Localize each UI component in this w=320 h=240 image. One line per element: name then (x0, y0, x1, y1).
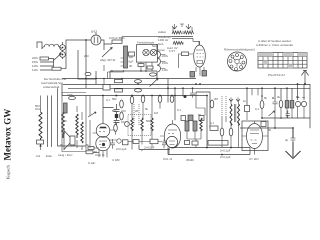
switch S4 mains (150, 79, 159, 87)
resistor R37 (181, 116, 186, 121)
svg-text:220v: 220v (162, 54, 169, 58)
core IF1 (172, 37, 193, 39)
capacitor C15 (291, 128, 296, 150)
bus heater (62, 78, 196, 80)
node V2 grid (174, 95, 176, 97)
bus right mid (262, 84, 310, 128)
node ant terminal (40, 145, 42, 147)
resistor R26 (290, 101, 294, 109)
wire psu box corner (96, 71, 110, 84)
resistor R29 (150, 139, 158, 144)
node J26 (261, 87, 263, 89)
wire ant down (40, 96, 42, 151)
resistor R23 (260, 101, 264, 109)
svg-text:Metavox GW: Metavox GW (3, 109, 13, 161)
node dots rails (102, 95, 104, 97)
wire psu left column (85, 40, 87, 88)
svg-text:Innen: Innen (158, 48, 165, 52)
resistor R32 band (69, 96, 76, 99)
resistor R35 (192, 141, 198, 145)
svg-text:0,1: 0,1 (255, 107, 259, 111)
node J36 (171, 95, 173, 97)
svg-text:110v: 110v (32, 68, 38, 72)
coil L13 (76, 114, 78, 138)
svg-text:50k: 50k (112, 109, 117, 113)
box band unit (62, 93, 86, 152)
svg-text:0,1: 0,1 (210, 121, 214, 125)
wire V2 pins (160, 120, 175, 155)
node J1 (62, 47, 64, 49)
svg-text:µ: µ (141, 148, 143, 152)
resistor R28 (133, 140, 139, 144)
capacitor C17 (160, 96, 166, 148)
trimmer arrow T4 (236, 98, 240, 102)
capacitor C5 (115, 80, 123, 83)
svg-text:1k: 1k (243, 99, 247, 103)
bus main1 (63, 84, 310, 86)
switch S3 (102, 48, 112, 58)
wire cath (93, 148, 99, 152)
node J7 (137, 83, 139, 85)
tube V3 output (194, 45, 206, 67)
trimmer arrow T3 (229, 98, 233, 102)
table rows (258, 56, 307, 64)
node J24 (206, 95, 208, 97)
lamp LP1 (60, 45, 66, 51)
node J10 (95, 78, 97, 80)
resistor R17 (185, 121, 189, 131)
node J15 (131, 95, 133, 97)
wire V2 top column (168, 79, 183, 121)
resistor R9 (150, 73, 157, 76)
svg-text:W: W (60, 143, 63, 147)
capacitor C20 (286, 111, 291, 119)
svg-text:2×0,1µF: 2×0,1µF (116, 147, 127, 151)
node J25 (246, 87, 248, 89)
node r3 (280, 117, 282, 119)
svg-text:UY 11N: UY 11N (249, 157, 259, 161)
svg-text:2M: 2M (214, 97, 219, 101)
resistor R33 hatched (64, 103, 68, 113)
coil L9 (151, 118, 153, 131)
trimmer arrow T2 (186, 24, 191, 29)
speaker SP1 coil b (150, 49, 156, 55)
choke L2 tapped (157, 44, 161, 79)
coil L6 antenna coil (62, 112, 65, 138)
node J16 (142, 95, 144, 97)
bus bottom1 (168, 148, 250, 155)
tick marks top right (297, 97, 306, 99)
svg-text:A-Röhren u. Urdox verwendet: A-Röhren u. Urdox verwendet (256, 43, 293, 47)
node J22 (192, 87, 194, 89)
tube V5 (247, 124, 263, 149)
node J9 (304, 83, 306, 85)
resistor R4 (147, 66, 153, 69)
varcap CV4 (225, 96, 227, 116)
wire tap bus (40, 59, 54, 71)
node det blob (184, 95, 187, 98)
node J27 (274, 87, 276, 89)
switch S5 avc arrow (269, 111, 275, 116)
wire V5 pins (242, 121, 268, 155)
capacitor C12 (273, 100, 278, 106)
svg-text:Geh.: Geh. (158, 42, 164, 46)
trimmer arrow T1 (172, 24, 177, 29)
svg-text:5k: 5k (264, 96, 268, 100)
tube V5 rectifier box (242, 121, 268, 151)
node r1 (272, 97, 274, 99)
capacitor C8 (114, 116, 120, 127)
wire right columns mid (247, 106, 304, 128)
wire to rectifier (61, 40, 91, 69)
resistor R36 (114, 124, 118, 131)
ground arrow (286, 128, 301, 159)
svg-text:50k: 50k (146, 119, 151, 123)
svg-text:470k: 470k (67, 93, 74, 97)
speaker SP1 coil a (143, 49, 149, 55)
wire det corner (196, 96, 205, 116)
coil L12 IF2 secondary (238, 104, 240, 126)
svg-text:80: 80 (296, 95, 300, 99)
resistor R38 (188, 115, 193, 121)
resistor R13 (120, 112, 124, 120)
wire left frame (58, 84, 67, 146)
speaker SP1 frame (137, 45, 158, 63)
svg-text:2k: 2k (277, 95, 281, 99)
coil L7 (131, 118, 133, 131)
svg-text:4µ: 4µ (285, 138, 289, 142)
capacitor C9 (170, 96, 174, 103)
resistor R5 (190, 72, 195, 78)
coil L4 IF secondary (184, 31, 194, 34)
wire mid column (103, 96, 114, 124)
wire drops (252, 88, 258, 95)
svg-text:45420: 45420 (186, 158, 194, 162)
wire IF2 (231, 102, 239, 129)
capacitor block C2 electrolytic (124, 46, 128, 68)
resistor R18 (193, 121, 197, 131)
varcap CV2 (138, 104, 140, 126)
node J23 (195, 83, 197, 85)
capacitor C3 (129, 52, 135, 56)
wire mid column2 (187, 129, 201, 148)
capacitor C7 (114, 104, 120, 115)
coil L8 (141, 118, 143, 131)
svg-text:110v: 110v (162, 68, 168, 72)
capacitor C18 (103, 85, 110, 91)
resistor R31 (86, 151, 93, 154)
wire V1 anode (110, 121, 116, 134)
svg-text:2×0,1µF: 2×0,1µF (220, 149, 231, 153)
node r2 (261, 95, 263, 97)
node J12 (156, 78, 158, 80)
wire V1 pins (93, 133, 114, 157)
svg-text:Ant: Ant (36, 154, 40, 158)
resistor R22 (229, 128, 233, 136)
node J30 (261, 117, 263, 119)
capacitor C16 (110, 139, 115, 149)
svg-text:0,1: 0,1 (177, 108, 181, 112)
varcap CV1 (133, 104, 135, 126)
tube V1 converter (96, 124, 110, 138)
resistor R20 (210, 126, 218, 131)
resistor R24 (279, 100, 283, 108)
wire detector row (114, 140, 163, 142)
resistor R8 (135, 89, 142, 92)
svg-text:50: 50 (268, 128, 272, 132)
wire IF connections (173, 27, 199, 45)
bus main2 (68, 87, 310, 89)
node J21 (182, 87, 184, 89)
node J3 (140, 70, 142, 72)
svg-text:Außen: Außen (158, 30, 167, 34)
wire tube V3 pins (196, 67, 204, 76)
bus B+ top (110, 70, 157, 72)
switch S2 (88, 112, 96, 117)
svg-text:Erde: Erde (46, 154, 52, 158)
bus detector return (170, 147, 250, 149)
resistor R6 (202, 71, 207, 77)
resistor R11 (123, 140, 129, 145)
resistor R40 (37, 140, 44, 144)
svg-text:Ph••237•F•A7: Ph••237•F•A7 (268, 73, 286, 77)
coil L14 (81, 122, 83, 143)
dashed shield box T2 (128, 115, 151, 136)
svg-text:250: 250 (84, 54, 89, 58)
svg-text:2×0,1µF: 2×0,1µF (220, 155, 231, 159)
node J31 (274, 127, 276, 129)
wire corner (193, 92, 211, 128)
resistor R7 (135, 80, 142, 83)
node bus dots (111, 70, 113, 72)
wire lower rail (62, 95, 207, 97)
svg-text:20: 20 (135, 109, 139, 113)
node J13 (85, 78, 87, 80)
capacitor C1 (112, 40, 122, 43)
resistor R25 (285, 101, 289, 109)
wire right columns top (247, 84, 304, 105)
node J28 (286, 87, 288, 89)
svg-text:4µF: 4µF (129, 55, 134, 59)
node J18 (151, 95, 153, 97)
svg-text:50: 50 (198, 113, 202, 117)
svg-text:0,1µF: 0,1µF (88, 161, 95, 165)
svg-text:2×0,5µF: 2×0,5µF (144, 146, 155, 150)
node J19 (167, 87, 169, 89)
wire IF2 bottom (222, 116, 239, 148)
tube V2 (164, 124, 180, 148)
node J35 (206, 147, 208, 149)
resistor R30 (88, 147, 94, 150)
coil L3 IF primary (172, 31, 182, 34)
resistor R39 (199, 116, 204, 121)
wire mains top (37, 42, 42, 49)
coil L1 primary winding (42, 44, 61, 49)
svg-text:30: 30 (129, 64, 133, 68)
wire column x207 (206, 96, 208, 148)
table shading (258, 53, 307, 69)
node J5 (103, 78, 105, 80)
table columns (263, 53, 303, 69)
svg-text:6µF: 6µF (129, 60, 134, 64)
node J20 (174, 87, 176, 89)
node J17 (159, 95, 161, 97)
antenna ANT (301, 71, 308, 86)
wire top rail (122, 36, 172, 38)
svg-text:5k: 5k (145, 107, 149, 111)
table voltages frame (258, 53, 307, 69)
wire speaker leads (141, 62, 152, 71)
socket U1 view (228, 52, 247, 71)
capacitor C21 (261, 122, 266, 127)
wire dipole a (47, 96, 49, 148)
resistor R14 (130, 96, 134, 103)
coil L11 IF2 primary (230, 104, 232, 126)
node psu (85, 39, 87, 41)
wire choke taps (161, 55, 166, 69)
svg-text:Kapsch: Kapsch (6, 165, 11, 179)
svg-text:0,1: 0,1 (106, 98, 110, 102)
resistor R2 (52, 67, 61, 70)
capacitor C13 (295, 101, 300, 106)
svg-text:Ausf. 4V6 ST: Ausf. 4V6 ST (167, 46, 178, 53)
wire lamp link (60, 42, 62, 59)
node J34 (230, 147, 232, 149)
wire C4 (179, 54, 194, 68)
node J11 (199, 83, 201, 85)
resistor R27 (85, 72, 91, 75)
svg-text:Abgl. 407 W: Abgl. 407 W (100, 58, 116, 62)
diode D1 (117, 139, 121, 143)
svg-text:50k: 50k (112, 97, 117, 101)
varcap CV3 (221, 96, 223, 116)
coil L10 (200, 118, 202, 131)
node J2 (62, 54, 64, 56)
node J33 (221, 154, 223, 156)
capacitor C6 (115, 89, 123, 92)
svg-text:1M: 1M (154, 111, 159, 115)
resistor R3 (138, 64, 144, 67)
resistor R16 (158, 95, 162, 102)
capacitor C14 (301, 101, 306, 106)
capacitor C2 ticks (108, 58, 124, 79)
node J14 (116, 95, 118, 97)
wire bottom left join (66, 145, 170, 150)
node tube V1 cathode blob (102, 143, 105, 146)
capacitor C10 (190, 88, 195, 98)
wire dipole b (51, 96, 53, 148)
node J8 (115, 95, 117, 97)
resistor R1 (40, 57, 49, 60)
wire tube V3 top pin (199, 41, 201, 45)
node J6 (121, 78, 123, 80)
tube V4 rectifier (91, 35, 101, 45)
svg-text:W: W (64, 119, 67, 123)
core IF2 (235, 104, 236, 122)
svg-text:Anodensp.1400 Hz: Anodensp.1400 Hz (158, 35, 172, 42)
switch S1 voltage selector (54, 54, 62, 61)
node J29 (297, 83, 299, 85)
wire right drop (78, 50, 96, 79)
svg-text:Röhrensockelbild(gesch): Röhrensockelbild(gesch) (224, 48, 255, 52)
capacitor C19 block (208, 141, 228, 146)
wire band unit (77, 96, 90, 151)
bus lower right (240, 127, 293, 129)
lamp LP2 (60, 52, 66, 58)
capacitor C11 (245, 106, 250, 112)
svg-text:U 180: U 180 (112, 158, 120, 162)
speaker SP2 (64, 131, 75, 150)
resistor R34 (185, 141, 190, 145)
resistor R21 (220, 128, 224, 136)
svg-text:Lang • Kurz: Lang • Kurz (58, 153, 73, 157)
wire rectifier out (101, 37, 122, 50)
wire osc section (132, 96, 160, 150)
svg-text:150v: 150v (162, 61, 169, 65)
capacitor C4 (182, 52, 189, 56)
node grid blob (115, 114, 118, 118)
node J32 (292, 127, 294, 129)
resistor R15 (141, 95, 145, 102)
coil L5 (173, 42, 183, 45)
resistor R19 (210, 100, 214, 108)
node osc (125, 122, 130, 127)
resistor R12 (120, 100, 124, 108)
wire psu inner (104, 65, 108, 89)
resistor R10 antenna (39, 112, 42, 145)
node J4 (145, 70, 147, 72)
node T (180, 24, 184, 27)
svg-text:UCL 11: UCL 11 (163, 157, 173, 161)
